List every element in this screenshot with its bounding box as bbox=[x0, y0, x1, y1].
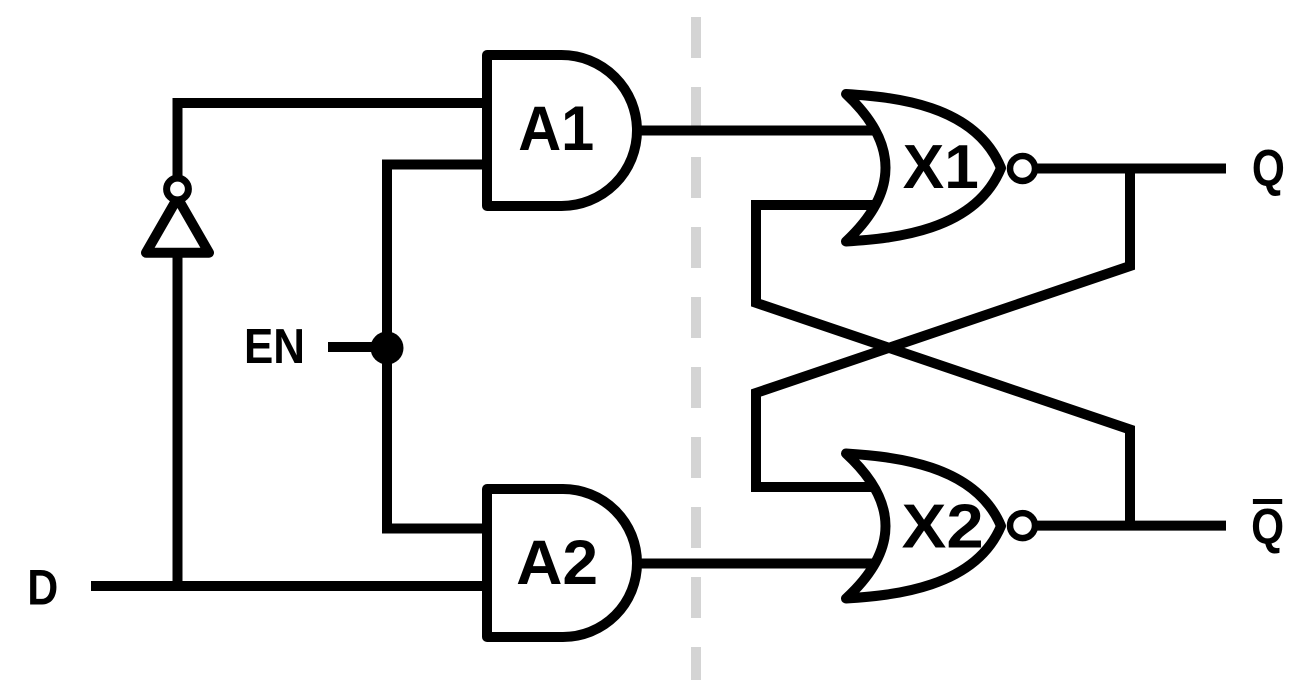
inverter bubble bbox=[167, 178, 189, 200]
wire Q-bar output line bbox=[1036, 521, 1226, 531]
wire EN vertical with branches to A1 and A2 bbox=[387, 165, 492, 529]
wire inverter bubble to top corner to A1 top input bbox=[178, 103, 493, 181]
label Q-bar overline bbox=[1253, 499, 1282, 504]
svg-text:D: D bbox=[27, 560, 58, 616]
wire EN stub bbox=[328, 342, 387, 352]
wire X1 output feedback to X2 top input (cross couple) bbox=[756, 169, 1130, 488]
NOR gate X2 body bbox=[846, 454, 1001, 599]
NOR gate X1 body bbox=[846, 94, 1001, 242]
wire X2 output feedback to X1 bottom input (cross couple) bbox=[756, 205, 1130, 526]
dashed feedback boundary line bbox=[691, 0, 701, 680]
node EN junction dot bbox=[371, 332, 404, 365]
svg-text:Q: Q bbox=[1252, 140, 1285, 198]
inverter triangle (pointing up) bbox=[146, 198, 209, 253]
wire A2 output to X2 input bbox=[640, 559, 880, 569]
svg-text:EN: EN bbox=[244, 320, 305, 374]
svg-text:A1: A1 bbox=[518, 94, 594, 164]
wire inverter vertical from D line to triangle bbox=[173, 254, 183, 591]
AND gate A1 bbox=[487, 55, 637, 206]
NOR gate X2 bubble bbox=[1010, 513, 1035, 538]
wire Q output line bbox=[1036, 164, 1226, 174]
svg-text:X1: X1 bbox=[903, 133, 979, 202]
svg-text:Q: Q bbox=[1251, 499, 1284, 555]
svg-text:A2: A2 bbox=[516, 528, 598, 598]
svg-text:X2: X2 bbox=[902, 493, 984, 562]
AND gate A2 bbox=[487, 489, 637, 637]
NOR gate X1 bubble bbox=[1010, 156, 1035, 181]
wire A1 output to X1 input bbox=[640, 126, 880, 136]
wire D input horizontal bbox=[91, 581, 492, 591]
